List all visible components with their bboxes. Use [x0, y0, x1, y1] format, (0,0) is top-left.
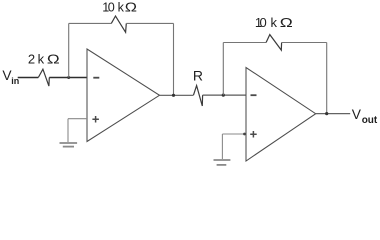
ground 1 symbol	[60, 142, 78, 144]
svg-text:Ω: Ω	[47, 52, 60, 67]
wire U1 output to resistor R3	[160, 94, 194, 96]
op-amp U1 triangle	[87, 49, 160, 142]
wire feedback 2 top left segment	[223, 42, 266, 44]
svg-text:Ω: Ω	[125, 1, 137, 15]
resistor R3 zigzag	[194, 86, 203, 106]
wire resistor R1 to op-amp U1 inverting input	[49, 77, 87, 79]
op-amp U2 minus input sign	[251, 94, 257, 96]
node D junction dot feedback2 to output	[325, 112, 328, 115]
resistor R2 10k zigzag	[111, 16, 126, 32]
op-amp U2 triangle	[246, 68, 316, 162]
wire feedback 2 top right segment	[282, 42, 327, 44]
label Vout	[352, 107, 378, 126]
node C junction dot feedback2 to input	[222, 94, 225, 97]
label 10 k Ohm first	[102, 1, 137, 15]
svg-text:k: k	[118, 1, 125, 15]
wire feedback 1 top left segment	[69, 22, 112, 24]
wire U1 plus input horizontal	[68, 118, 87, 120]
wire U2 output to Vout	[316, 113, 351, 115]
node B junction dot feedback1 to output	[172, 94, 175, 97]
resistor R1 2k zigzag	[38, 69, 49, 86]
wire feedback 2 right vertical	[326, 43, 328, 114]
wire feedback 1 top right segment	[126, 22, 173, 24]
op-amp U2 plus input sign	[250, 131, 257, 138]
svg-text:0: 0	[108, 1, 115, 15]
op-amp U1 minus input sign	[93, 77, 99, 79]
svg-text:0: 0	[260, 15, 267, 30]
resistor R4 10k zigzag	[266, 35, 282, 51]
svg-text:out: out	[362, 115, 378, 126]
wire feedback 1 right vertical	[173, 23, 175, 95]
svg-text:2: 2	[28, 51, 35, 66]
svg-text:V: V	[352, 107, 362, 122]
svg-text:k: k	[38, 51, 45, 66]
wire ground 2 vertical	[221, 134, 223, 159]
wire ground 1 vertical	[67, 119, 69, 142]
op-amp U1 plus input sign	[92, 116, 99, 123]
label 2 k Ohm	[28, 51, 60, 66]
label 10 k Ohm second	[255, 15, 293, 30]
wire feedback 2 left vertical	[222, 43, 224, 96]
junction dot at U2 plus pin	[243, 133, 246, 136]
label Vin	[2, 68, 19, 86]
wire Vin to resistor R1	[18, 77, 39, 79]
svg-text:R: R	[193, 67, 203, 83]
svg-text:k: k	[271, 15, 278, 30]
wire feedback 1 left vertical	[68, 23, 70, 77]
ground 2 symbol	[214, 159, 231, 161]
svg-text:Ω: Ω	[280, 16, 293, 30]
wire U2 plus input horizontal	[222, 133, 246, 135]
wire resistor R3 to op-amp U2 inverting input	[203, 94, 246, 96]
node A junction dot	[67, 76, 70, 79]
